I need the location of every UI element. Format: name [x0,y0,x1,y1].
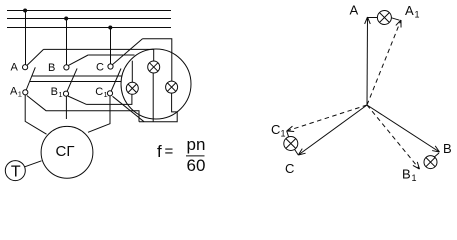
svg-text:1: 1 [415,10,420,20]
wire A1 down to SG [25,95,46,135]
bottom routing wire [139,93,177,122]
contact B [64,65,69,70]
wire C over lamp block [143,39,172,81]
svg-text:60: 60 [187,156,206,175]
generator SG circle [41,126,93,178]
lamp HL2 left [126,82,138,94]
lamp HL3 right [166,81,178,93]
wire L3 to contact C [110,28,112,65]
svg-text:СГ: СГ [56,143,75,160]
lamp block circle [121,49,191,119]
phasor vector A [366,17,369,105]
bus bar L1 [7,10,171,12]
blade from contact A1 [26,67,35,90]
top lamp lower lead [152,73,154,122]
contact C [108,64,113,69]
bus bar L2 [7,18,171,20]
svg-text:C: C [95,86,103,98]
svg-text:1: 1 [412,173,417,183]
svg-text:pn: pn [187,135,206,154]
wire B1 down [65,96,67,119]
turbine T circle [5,161,25,181]
phasor lamp C [287,131,289,137]
wire W_d to B1 [27,96,139,122]
lamp wire W2 [30,81,122,83]
contact C1 [107,91,112,96]
phasor vector A1 dashed [367,20,401,105]
svg-text:A: A [405,3,414,18]
svg-text:Т: Т [11,164,21,181]
blade from contact A [27,49,44,65]
svg-text:1: 1 [104,90,108,99]
svg-text:C: C [285,161,294,176]
contact B1 [63,91,68,96]
svg-text:1: 1 [58,90,62,99]
svg-text:B: B [402,167,411,182]
wire A to top lamp [44,48,154,50]
phasor vector B1 dashed [367,105,420,169]
svg-text:C: C [96,61,104,73]
shaft T to SG [25,161,42,167]
blade from contact C [112,39,142,65]
svg-text:f: f [157,142,162,161]
lamp wire W1 [32,75,122,77]
blade from contact B1 [67,68,77,91]
blade from contact B [68,55,88,66]
bus bar L3 [7,27,171,29]
wire L2 to contact B [66,19,68,65]
phasor vector C [298,105,367,155]
contact A [23,65,28,70]
junction dot on L2 [64,17,68,21]
top lamp upper lead [153,49,155,61]
svg-text:=: = [165,143,174,160]
svg-text:1: 1 [18,90,22,99]
wire B to left lamp [88,54,134,56]
phasor lamp B [434,153,439,157]
wire C1 down to SG [88,96,110,133]
svg-text:1: 1 [281,129,286,139]
left lamp upper lead [131,61,133,83]
svg-text:C: C [271,122,280,137]
contact A1 [23,90,28,95]
blade from contact C1 [111,69,121,92]
wire L1 to contact A [25,11,27,65]
svg-text:B: B [443,141,452,156]
phasor vector C1 dashed [287,105,367,131]
left lamp lower lead [87,94,132,104]
svg-text:A: A [350,3,359,18]
junction dot on L1 [23,9,27,13]
wire C1 to bottom routing [113,96,145,121]
wire B1 to lamp return [68,96,87,104]
lamp HL1 top [148,61,160,73]
svg-text:A: A [11,62,19,74]
junction dot on L3 [108,26,112,30]
svg-text:A: A [10,86,18,98]
phasor vector B [367,105,440,152]
svg-text:B: B [51,86,58,98]
svg-text:B: B [48,62,55,74]
phasor lamp A [368,17,377,19]
